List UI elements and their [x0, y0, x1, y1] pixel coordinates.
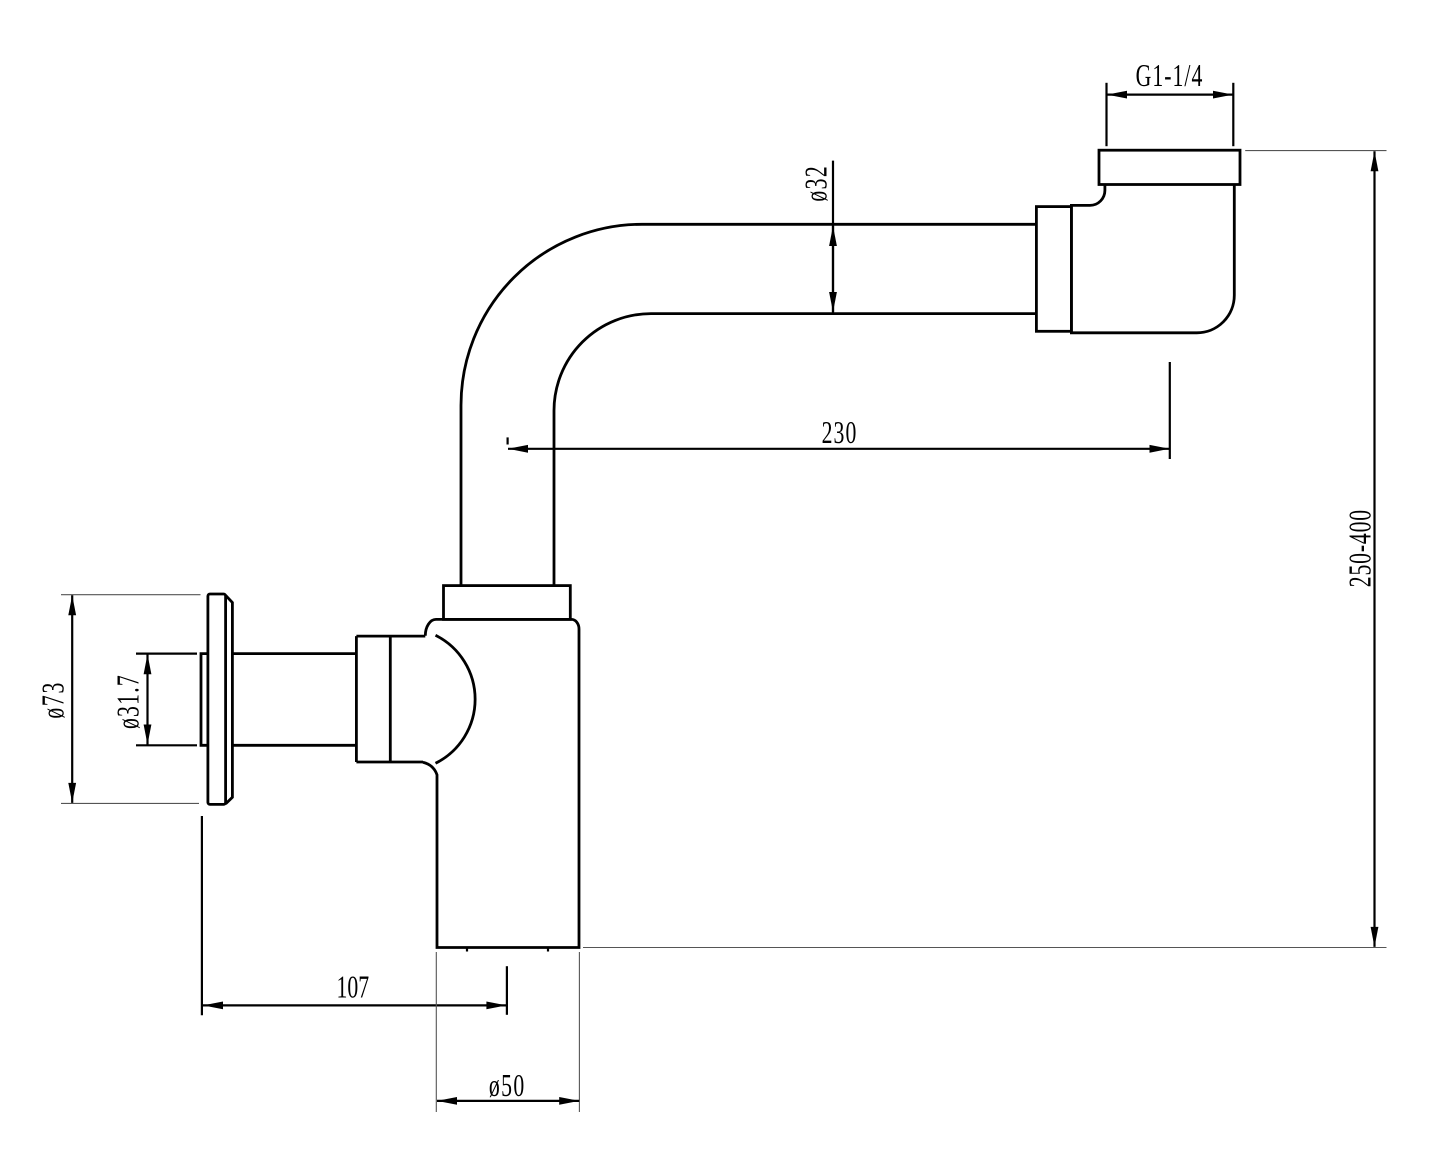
svg-text:ø73: ø73	[36, 681, 71, 719]
svg-text:G1-1/4: G1-1/4	[1136, 58, 1204, 93]
dimension 250-400 line	[1373, 151, 1375, 947]
pipe horizontal bottom line	[651, 312, 1036, 315]
svg-text:230: 230	[822, 415, 858, 450]
dimension o73 line	[71, 595, 73, 803]
dimension 250-400 top extension line	[1245, 150, 1386, 152]
svg-text:250-400: 250-400	[1343, 509, 1378, 587]
pipe horizontal top line	[642, 223, 1036, 226]
elbow body	[1071, 185, 1234, 333]
dimension 230 left tick	[507, 437, 509, 444]
svg-text:107: 107	[337, 970, 370, 1005]
trap inlet neck bottom line	[356, 761, 423, 764]
inlet pipe top line	[232, 652, 356, 655]
pipe bend inner curve	[554, 314, 651, 586]
svg-text:ø32: ø32	[799, 165, 834, 202]
elbow side nut	[1036, 207, 1071, 332]
dimension G1-1/4 extension lines	[1105, 83, 1107, 146]
inlet nut left edge	[355, 636, 358, 762]
dimension o50 extension lines	[435, 952, 437, 1112]
inlet nut divider	[389, 636, 392, 762]
trap inlet neck top line	[356, 635, 425, 638]
inner bowl joint arc	[436, 635, 476, 763]
trap body outline	[423, 619, 579, 947]
dimension 107 right extension line	[506, 966, 508, 1015]
svg-text:ø50: ø50	[489, 1068, 526, 1103]
trap top flange nut	[444, 586, 571, 620]
dimension 250-400 bottom extension line	[583, 947, 1387, 949]
dimension 107 line	[203, 1004, 506, 1006]
inlet pipe bottom line	[232, 744, 356, 747]
dimension o31.7 line	[146, 654, 148, 744]
trap bottom nub right	[547, 948, 549, 952]
dimension 230 right extension line	[1169, 362, 1171, 459]
dimension 107 left extension line	[201, 816, 203, 1015]
dimension o31.7 extension lines	[136, 652, 197, 654]
dimension o32 extension line	[832, 161, 834, 313]
dimension o50 line	[437, 1100, 579, 1102]
wall pipe stub	[201, 654, 208, 746]
trap bottom nub left	[466, 948, 468, 952]
wall flange collar	[226, 595, 233, 804]
svg-text:ø31.7: ø31.7	[111, 674, 146, 729]
wall flange plate	[208, 594, 226, 804]
pipe bend outer curve	[461, 224, 642, 585]
dimension o73 extension lines	[61, 594, 201, 596]
dimension G1-1/4 line	[1107, 93, 1233, 95]
dimension o32 arrows	[832, 226, 834, 312]
elbow flange (top right)	[1099, 150, 1240, 184]
dimension 230 line	[508, 448, 1170, 450]
